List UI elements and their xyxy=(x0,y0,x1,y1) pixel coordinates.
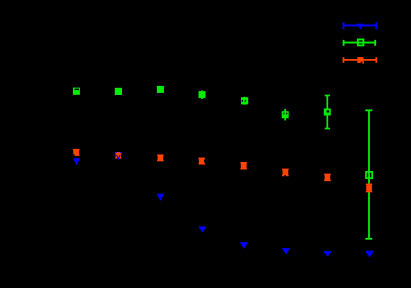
red square marker point 1 xyxy=(73,149,80,156)
green series error bar point 6 xyxy=(284,109,286,121)
red square marker point 8 xyxy=(366,184,373,192)
green square marker point 3 xyxy=(157,86,164,93)
blue triangle marker point 3 xyxy=(157,194,165,201)
red square marker point 4 xyxy=(198,158,205,164)
green hollow square marker point 8 xyxy=(366,172,372,178)
green square marker point 1 xyxy=(73,88,80,95)
blue triangle marker point 4 with cap xyxy=(199,227,206,233)
red square marker point 7 xyxy=(324,174,331,180)
red square marker point 6 xyxy=(282,169,289,176)
green square marker point 4 xyxy=(199,90,206,99)
blue triangle marker point 2 (under red) xyxy=(114,152,122,159)
green square marker point 5 xyxy=(241,97,248,105)
green square marker point 6 xyxy=(282,111,289,118)
legend green errorbar entry xyxy=(343,39,376,45)
blue triangle marker point 7 with cap xyxy=(324,252,331,257)
red square marker point 5 xyxy=(240,163,247,169)
red square marker point 2 (over blue) xyxy=(115,152,121,159)
green series error bar point 7 xyxy=(325,96,330,129)
blue triangle marker point 1 xyxy=(73,158,80,165)
red square marker point 3 xyxy=(157,155,164,161)
green square marker point 2 xyxy=(115,88,122,95)
green series error bar point 8 xyxy=(365,110,372,239)
blue triangle marker point 5 xyxy=(240,242,248,249)
green square marker point 7 xyxy=(324,109,331,116)
legend red errorbar entry xyxy=(343,57,377,64)
legend blue errorbar entry xyxy=(343,22,378,29)
blue triangle marker point 8 with cap xyxy=(366,252,373,258)
blue triangle marker point 6 xyxy=(282,248,290,254)
